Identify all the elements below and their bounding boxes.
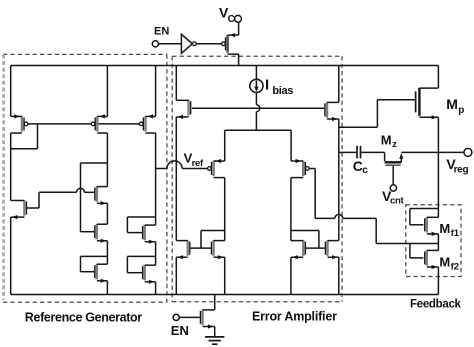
capacitor Cc [356, 146, 358, 159]
wire V_C to Mvc source [238, 22, 240, 35]
svg-text:I: I [265, 77, 269, 94]
transistor M16 (mirror right outer) [302, 240, 304, 255]
wire M1 drain down [10, 133, 12, 201]
svg-text:f1: f1 [451, 228, 460, 239]
wire M15 source to ground [224, 257, 226, 294]
wire EN gate [179, 316, 199, 318]
wire M1 diode tap [37, 124, 39, 149]
transistor M18 (EN pulldown NMOS) [201, 310, 203, 325]
wire Vreg column [437, 117, 439, 217]
svg-text:reg: reg [454, 165, 469, 176]
wire EN to inverter [159, 43, 182, 45]
wire Ibias down with hop [255, 92, 257, 104]
transistor M1 (PMOS diode) [21, 116, 23, 131]
wire M14 source to ground [175, 257, 177, 294]
wire M9 source to ground [155, 282, 157, 295]
wire Ibias from rail [255, 66, 257, 80]
wire output column down [338, 119, 340, 241]
wire tail tee [225, 129, 291, 131]
wire Cc to Mz [361, 151, 384, 153]
transistor M10 (left bias) [187, 100, 189, 115]
reference generator dashed box [3, 53, 167, 55]
transistor M3 (PMOS mirror) [144, 116, 146, 131]
transistor M14 (mirror left outer) [186, 240, 188, 255]
svg-text:M: M [446, 96, 458, 112]
svg-text:M: M [381, 133, 392, 148]
wire Vref with hop [156, 168, 167, 170]
error amplifier dashed box [172, 55, 342, 57]
transistor M5 (NMOS) [96, 186, 98, 201]
terminal EN (bottom) [173, 314, 179, 320]
svg-text:Reference Generator: Reference Generator [25, 310, 142, 324]
wire M6 gate wire [81, 231, 95, 233]
wire M16 source to ground [290, 257, 292, 294]
wire inverter to Mvc gate [196, 43, 222, 45]
wire M2 source column [106, 66, 108, 117]
wire M11 drain to rail [338, 66, 340, 103]
wire M17 source to ground [338, 257, 340, 294]
svg-text:Feedback: Feedback [410, 299, 462, 311]
wire M4 gate link [27, 207, 39, 209]
wire Mz gate [392, 166, 394, 185]
wire Mz to Vreg [401, 151, 438, 153]
wire M8 diode loop [127, 216, 155, 218]
svg-text:cnt: cnt [390, 195, 404, 206]
wire M12 drain down [224, 178, 226, 241]
transistor Mf2 [426, 250, 428, 265]
wire bias gate bus [192, 107, 324, 109]
wire to Cc [339, 151, 356, 153]
wire M7 source to ground [106, 281, 108, 295]
transistor Mz (zero resistor) [384, 152, 386, 161]
wire M3 drain down [155, 133, 157, 225]
transistor Mvc (enable PMOS) [226, 35, 228, 53]
transistor M2 (PMOS mirror) [96, 116, 98, 131]
wire hop gate link over M6 branch [77, 188, 85, 192]
transistor M7 (NMOS diode) [96, 264, 98, 279]
wire VDD rail [11, 65, 439, 67]
svg-text:f2: f2 [451, 262, 459, 273]
terminal V_cnt [390, 185, 396, 191]
transistor M4 (NMOS) [23, 200, 25, 215]
svg-text:M: M [439, 254, 450, 269]
wire Mp gate path [377, 99, 415, 101]
svg-text:c: c [362, 165, 368, 176]
wire M1 source column [10, 66, 12, 117]
wire Mp source to rail [437, 66, 439, 89]
wire PMOS gate bus [28, 123, 139, 125]
wire M5 source to M6 drain [106, 203, 108, 224]
transistor Mp (pass device) [418, 88, 420, 116]
transistor Mf1 [426, 217, 428, 232]
wire Vreg output [438, 151, 464, 153]
transistor M9 (NMOS diode) [143, 265, 145, 280]
wire Mvc drain to rail [238, 54, 240, 65]
current source I_bias [250, 79, 263, 92]
wire M6 source to M7 drain [106, 241, 108, 264]
wire M13 gate to feedback [309, 168, 315, 170]
wire M8 source to M9 drain [155, 242, 157, 266]
wire M10 drain to rail [175, 66, 177, 101]
svg-text:ref: ref [192, 158, 204, 169]
svg-text:bias: bias [272, 85, 293, 97]
wire M9 diode loop [127, 255, 155, 257]
svg-text:EN: EN [171, 323, 189, 338]
svg-text:Error Amplifier: Error Amplifier [252, 309, 337, 323]
wire right mirror gates [306, 247, 325, 249]
wire Mf1 diode loop [410, 208, 439, 210]
transistor M12 (diff pair left PMOS) [212, 161, 214, 176]
svg-text:z: z [392, 139, 397, 150]
wire M13 drain down [290, 178, 292, 241]
svg-text:p: p [458, 105, 464, 116]
wire M2 drain down [106, 133, 108, 187]
terminal V_C [235, 15, 242, 22]
svg-text:M: M [439, 221, 450, 236]
wire M18 source down [214, 327, 216, 337]
transistor M13 (diff pair right PMOS) [302, 161, 304, 176]
wire ground rail [11, 294, 439, 296]
wire M7 gate tap [81, 255, 108, 257]
ground symbol [205, 336, 224, 338]
transistor M11 (right bias) [326, 102, 328, 117]
wire left column down [175, 117, 177, 241]
wire M18 drain to ground rail [214, 295, 216, 310]
wire M4 source to ground [10, 217, 12, 294]
wire left mirror gates [190, 247, 210, 249]
transistor M15 (mirror left inner diode) [212, 240, 214, 255]
transistor M6 (NMOS) [96, 224, 98, 239]
wire Mf2 diode loop [409, 244, 411, 258]
svg-text:C: C [228, 14, 235, 25]
feedback dashed box [406, 205, 461, 277]
svg-text:EN: EN [154, 26, 169, 38]
inverter U1 [181, 34, 192, 53]
wire Mf2 source to ground [437, 267, 439, 295]
terminal V_reg [464, 148, 472, 156]
wire M2-drain tee [81, 162, 108, 164]
transistor M8 (NMOS diode) [143, 225, 145, 240]
transistor M17 (mirror right inner) [326, 240, 328, 255]
wire M5 gate stub [93, 193, 95, 195]
wire M3 source column [155, 66, 157, 117]
wire Mf1 source to Mf2 drain [437, 234, 439, 251]
terminal EN (top) [152, 41, 158, 47]
